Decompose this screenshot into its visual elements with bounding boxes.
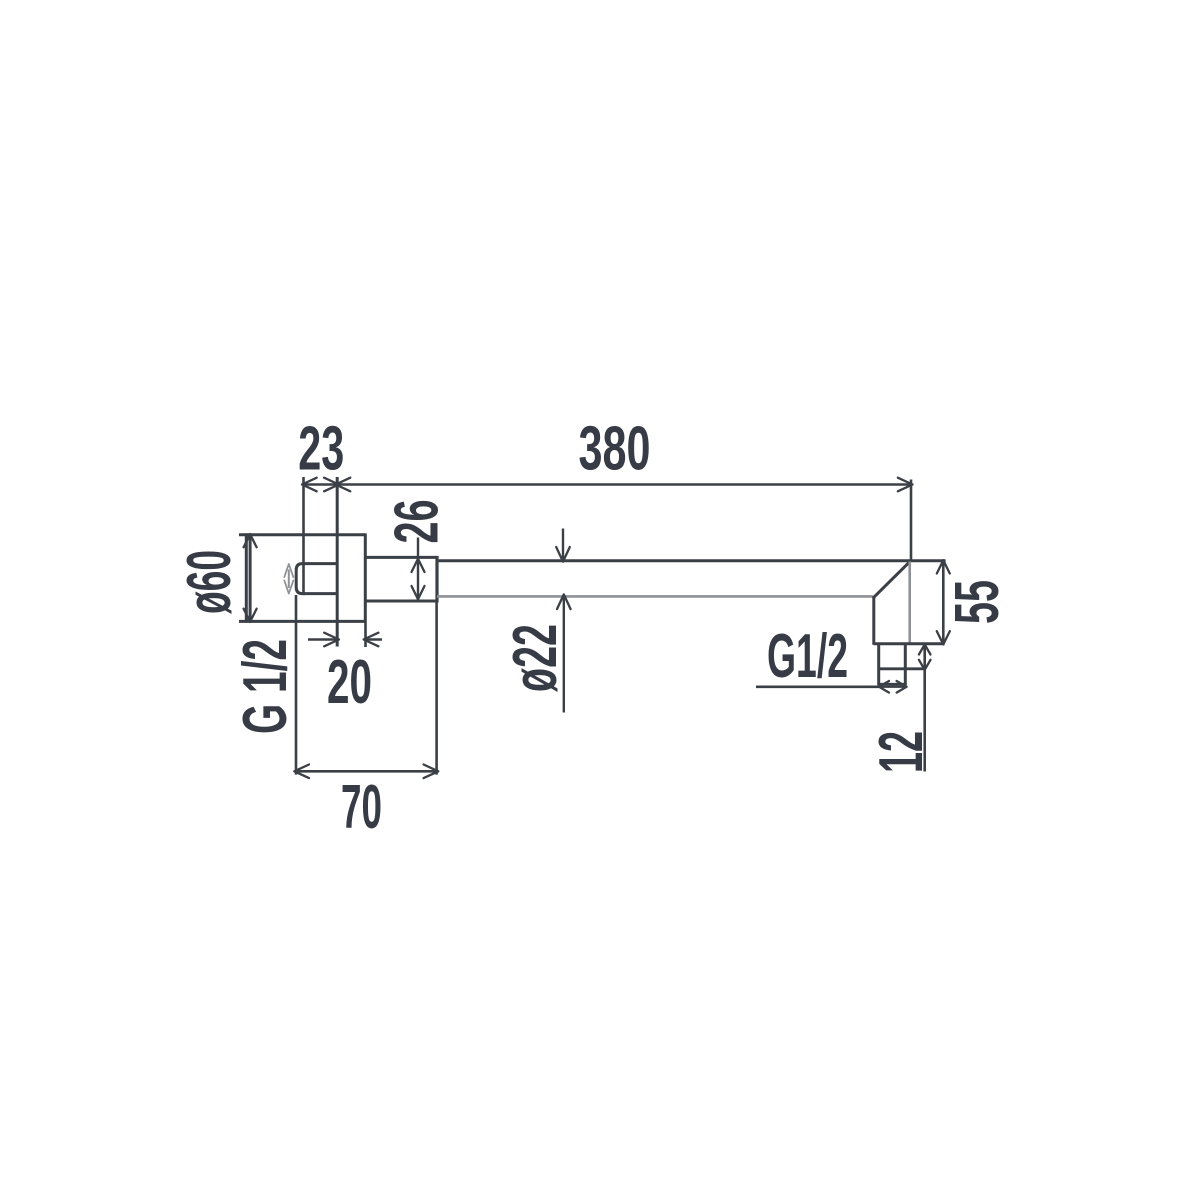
nipple rounded left cap <box>296 564 305 594</box>
arrow 55 down <box>937 631 950 644</box>
dim line o60 <box>249 536 252 621</box>
flange left edge <box>245 533 248 622</box>
svg-text:26: 26 <box>383 500 452 544</box>
tip bottom edge <box>878 683 907 686</box>
ext 70 left <box>295 595 298 775</box>
arrow tip width left <box>879 681 889 693</box>
arrow 55 up <box>937 560 950 573</box>
arrow 70 left <box>294 765 309 779</box>
tip mid line + 12 ext <box>879 667 926 670</box>
ext line left of 23 / nipple cap edge x=303.5 <box>302 477 305 594</box>
tip right edge <box>904 644 907 685</box>
ext line 23R/20L/nipple right x=337.2 <box>336 477 339 647</box>
20 left shaft <box>308 638 337 641</box>
arrow tip width right <box>897 681 907 693</box>
flange right edge <box>364 533 367 622</box>
boss bottom edge <box>365 600 437 603</box>
boss top edge <box>365 556 437 559</box>
mini arrow up <box>284 564 293 577</box>
svg-text:ø60: ø60 <box>175 550 244 614</box>
G1/2 dim shaft <box>881 686 906 688</box>
svg-text:ø22: ø22 <box>501 624 570 692</box>
tube top edge + 55 ext <box>437 559 946 562</box>
dim line 70 <box>296 770 437 773</box>
mini dim shaft at nipple <box>288 570 290 589</box>
elbow chamfer diagonal <box>873 561 910 598</box>
dim line 26 <box>417 538 419 600</box>
svg-text:12: 12 <box>867 731 936 773</box>
ext 20 right (flange edge ext) <box>364 623 367 648</box>
arrow 20 <-right <box>364 633 379 647</box>
arrow o22 up <box>557 594 571 609</box>
flange top edge <box>239 533 365 536</box>
mini arrow down <box>284 581 293 594</box>
arrow 380 right <box>898 478 913 492</box>
arrow 23 left <box>302 478 317 492</box>
flange bottom edge <box>239 620 365 623</box>
dim line 55 <box>942 562 945 643</box>
arrow 20 left-> <box>324 633 339 647</box>
arrow 12 down <box>919 660 931 670</box>
svg-text:70: 70 <box>341 773 382 842</box>
svg-text:G 1/2: G 1/2 <box>231 639 300 734</box>
ext line 380R / elbow corner x=911 <box>910 480 913 562</box>
elbow drop bottom + 55/12 ext <box>874 642 945 645</box>
elbow drop right edge (light) <box>908 562 911 644</box>
arrow 12 up <box>919 645 931 655</box>
arrow 26 down <box>412 586 425 599</box>
ext 70 right <box>435 603 438 775</box>
arrow 23 right <box>324 478 339 492</box>
o22 upper pointer <box>562 529 564 559</box>
nipple top edge <box>303 562 337 565</box>
svg-text:20: 20 <box>327 648 372 717</box>
elbow drop left edge <box>872 597 875 645</box>
svg-text:380: 380 <box>579 415 651 484</box>
arrow o60 down <box>244 609 257 622</box>
dim line 12 <box>923 645 926 772</box>
dim line 23+380, y=484.5 <box>304 483 912 486</box>
arrow 70 right <box>424 765 439 779</box>
arrow o22 down <box>556 547 570 562</box>
nipple bottom edge <box>303 592 337 595</box>
tip left edge <box>877 644 880 685</box>
svg-text:23: 23 <box>298 415 344 484</box>
arrow o60 up <box>244 534 257 547</box>
arrow 26 up <box>412 559 425 572</box>
G1/2 underline / dim line <box>756 685 881 688</box>
o22 lower pointer <box>563 597 565 712</box>
svg-text:55: 55 <box>943 580 1012 624</box>
tube bottom edge (light) <box>437 595 873 598</box>
20 right shaft <box>366 638 382 641</box>
svg-text:G1/2: G1/2 <box>767 622 848 691</box>
boss right edge <box>435 556 438 603</box>
arrow 380 left <box>336 478 351 492</box>
